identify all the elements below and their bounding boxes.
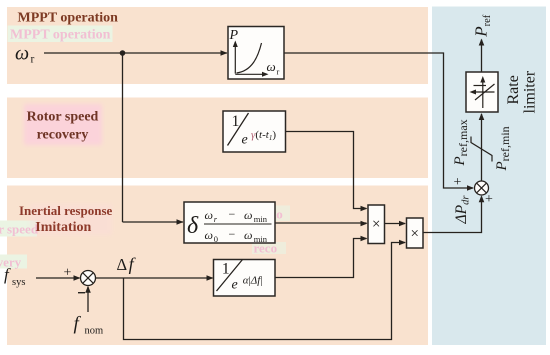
svg-text:sys: sys	[12, 277, 25, 288]
svg-text:1: 1	[222, 261, 230, 278]
svg-text:nom: nom	[85, 326, 104, 337]
svg-text:Rotor speed: Rotor speed	[0, 222, 39, 237]
svg-text:ω: ω	[267, 59, 276, 74]
svg-text:min: min	[254, 214, 268, 224]
svg-text:r: r	[31, 54, 35, 66]
svg-text:Imitation: Imitation	[35, 220, 91, 235]
svg-text:limiter: limiter	[522, 70, 539, 113]
svg-text:×: ×	[410, 226, 418, 242]
svg-text:+: +	[485, 192, 493, 207]
svg-text:MPPT operation: MPPT operation	[18, 11, 119, 26]
svg-text:ω: ω	[15, 43, 29, 65]
svg-text:ω: ω	[244, 208, 252, 222]
svg-text:1: 1	[232, 113, 240, 130]
svg-text:P: P	[229, 28, 239, 43]
svg-text:Rotor speed: Rotor speed	[27, 110, 99, 125]
svg-text:δ: δ	[187, 213, 199, 239]
svg-text:ω: ω	[205, 208, 213, 222]
svg-text:+: +	[64, 266, 72, 281]
svg-text:ω: ω	[244, 228, 252, 242]
svg-text:e: e	[242, 133, 248, 148]
svg-text:−: −	[229, 227, 236, 241]
svg-text:×: ×	[372, 217, 380, 233]
svg-text:α|Δf|: α|Δf|	[243, 275, 263, 287]
svg-text:−: −	[229, 207, 236, 221]
svg-text:Δf: Δf	[117, 254, 137, 274]
svg-text:MPPT operation: MPPT operation	[10, 28, 111, 43]
svg-text:ω: ω	[205, 228, 213, 242]
svg-text:recovery: recovery	[37, 128, 89, 143]
svg-text:r: r	[277, 67, 280, 77]
svg-text:min: min	[254, 234, 268, 244]
svg-text:γ(t-t1): γ(t-t1)	[251, 129, 276, 142]
svg-text:+: +	[454, 175, 462, 190]
svg-text:Inertial response: Inertial response	[19, 203, 113, 218]
svg-text:e: e	[232, 278, 238, 293]
svg-text:0: 0	[214, 234, 218, 244]
svg-text:Rate: Rate	[505, 75, 522, 104]
